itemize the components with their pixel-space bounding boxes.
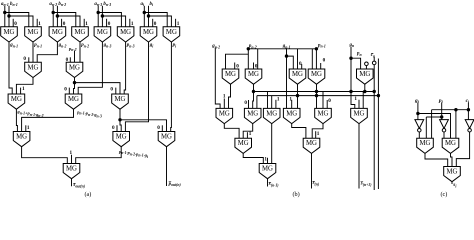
wire rail2 drop to B3 mid — [271, 96, 273, 109]
svg-text:MG: MG — [143, 29, 154, 36]
svg-text:0: 0 — [323, 58, 326, 64]
wire p_n-3 MG6 to MG13 — [124, 42, 125, 94]
majority gate U-A1 (b) — [222, 69, 239, 84]
svg-text:MG: MG — [359, 71, 370, 78]
svg-text:0: 0 — [23, 56, 26, 62]
constant 0 stub MG5 — [107, 19, 111, 27]
wire MG13 output down — [119, 109, 121, 120]
majority gate MG13 — [112, 94, 129, 109]
wire B5 output to C2 mid — [312, 124, 323, 139]
wire p_n-2 to A2 — [247, 48, 249, 70]
wire input an-1 to MG1 — [4, 6, 6, 27]
wire p_i to MG18 mid — [425, 117, 427, 138]
constant 1 stub gate B1 — [223, 94, 226, 109]
wire D1 output — [267, 179, 269, 187]
wire g_n-1 down — [286, 48, 288, 56]
node an-1 branch — [3, 11, 6, 14]
svg-text:pi: pi — [172, 43, 178, 48]
svg-text:s̅(n+1): s̅(n+1) — [360, 181, 372, 186]
majority gate MG3 — [49, 27, 66, 42]
wire c_i to MG19 right — [455, 110, 457, 139]
wire g_n-3 MG5 to MG12 — [78, 42, 102, 94]
node c_n on rail2 — [377, 94, 380, 97]
wire g_n to B6 left — [351, 58, 355, 108]
svg-text:s̅out(n): s̅out(n) — [72, 183, 85, 188]
svg-text:1: 1 — [354, 96, 357, 102]
svg-text:gn-1: gn-1 — [9, 43, 18, 48]
node A3 output on rail2 — [296, 94, 299, 97]
majority gate U-A2 (b) — [245, 69, 262, 84]
svg-text:1: 1 — [27, 125, 30, 131]
majority gate U-B3 (b) — [263, 108, 280, 123]
svg-text:MG: MG — [225, 71, 236, 78]
node A4 output on rail2 — [315, 94, 318, 97]
svg-text:MG: MG — [68, 96, 79, 103]
svg-text:gi: gi — [149, 43, 155, 48]
wire bn-2 to MG4 — [57, 16, 80, 27]
wire g_i down to inverter U1 — [417, 102, 419, 119]
wire an-1 to MG2 — [5, 13, 29, 27]
node MG13 output branch — [118, 118, 121, 121]
wire MG11 output to MG14 — [16, 109, 17, 131]
svg-text:MG: MG — [262, 166, 273, 173]
constant 1 stub gate B6 — [354, 96, 359, 108]
node MG10 output branch — [73, 81, 76, 84]
wire c_n into bubble — [373, 57, 375, 61]
svg-text:bi: bi — [150, 2, 155, 7]
majority gate MG19 (c) — [442, 138, 459, 153]
node an-3 branch — [97, 11, 100, 14]
node ai branch — [143, 11, 146, 14]
svg-text:MG: MG — [115, 96, 126, 103]
wire MG13 to MG16 mid — [120, 120, 167, 132]
wire MG19 output to MG20 mid — [451, 153, 453, 166]
majority gate U-B6 (b) — [351, 108, 368, 123]
wire rail1 drop to B5 mid — [322, 92, 324, 109]
majority gate MG20 (c) — [444, 167, 461, 182]
wire rail1 between rows A and B — [253, 91, 374, 93]
svg-text:1: 1 — [249, 131, 252, 137]
svg-text:MG: MG — [420, 140, 431, 147]
majority gate U-A3 (b) — [289, 69, 306, 84]
wire rail drop to A4 left — [311, 49, 313, 69]
majority gate MG6 — [117, 27, 134, 42]
svg-text:0: 0 — [154, 21, 157, 27]
majority gate MG11 — [8, 94, 25, 109]
wire B6 output s_n+1 — [358, 124, 360, 189]
constant 0 stub MG13 — [110, 87, 115, 94]
svg-text:MG: MG — [266, 110, 277, 117]
constant 1 stub gate D1 — [264, 157, 267, 164]
svg-text:MG: MG — [4, 29, 15, 36]
wire p_n-2 MG4 to MG10 right pin — [79, 42, 81, 62]
majority gate MG8 — [163, 27, 180, 42]
wire MG10 to MG12 mid — [74, 83, 75, 94]
node A4 output on rail1 — [315, 90, 318, 93]
svg-text:1: 1 — [223, 94, 226, 100]
node c_i branch — [467, 108, 470, 111]
svg-text:gn-2: gn-2 — [58, 43, 67, 48]
svg-text:pi: pi — [438, 98, 444, 104]
node g_n on rail1 — [349, 90, 352, 93]
inverter U3 (c) — [465, 120, 474, 132]
svg-text:0: 0 — [157, 125, 160, 131]
wire c_i down to inverter U3 — [467, 102, 469, 119]
constant 0 stub B-row gate A1 — [235, 63, 240, 70]
constant 0 stub gate B5 — [327, 98, 331, 109]
svg-text:MG: MG — [311, 71, 322, 78]
wire bn-3 to MG6 — [102, 16, 125, 27]
svg-text:s̅(n-1): s̅(n-1) — [268, 182, 279, 187]
node p_n-1 branch — [315, 47, 318, 50]
constant 1 stub MG14 — [26, 125, 30, 132]
svg-text:MG: MG — [238, 140, 249, 147]
svg-text:MG: MG — [52, 29, 63, 36]
wire c_n line down — [373, 65, 375, 190]
svg-text:gn-1+pn-1·gn-2: gn-1+pn-1·gn-2 — [17, 109, 44, 118]
constant 1 stub MG11 — [21, 86, 25, 94]
node bn-1 branch — [7, 14, 10, 17]
constant 0 stub MG9 — [23, 56, 28, 63]
wire MG10 output down — [74, 78, 76, 83]
wire input bn-1 to MG1 — [8, 6, 10, 27]
constant 0 stub MG12 — [64, 87, 69, 94]
svg-text:pn: pn — [356, 52, 362, 57]
wire rail1 drop to B6 right — [362, 92, 364, 109]
svg-text:0: 0 — [112, 125, 115, 131]
svg-text:bn-1: bn-1 — [10, 2, 18, 7]
wire A4 output through rail2 to B5 left — [316, 84, 318, 108]
wire p_n-1 MG2 to MG9 — [32, 42, 34, 62]
majority gate MG9 — [25, 62, 42, 77]
svg-text:MG: MG — [286, 110, 297, 117]
svg-text:0: 0 — [108, 21, 111, 27]
wire g_i to MG19 mid — [418, 114, 451, 139]
wire ai to MG8 — [144, 13, 167, 27]
wire inverter U1 to MG18 left — [418, 132, 420, 138]
svg-text:pn-1·pn-2·gn-3: pn-1·pn-2·gn-3 — [76, 109, 102, 118]
svg-text:1: 1 — [317, 131, 320, 137]
wire rail2 drop to B2 right — [256, 96, 258, 109]
wire p_i bus — [426, 116, 441, 118]
constant 0 stub MG15 — [112, 125, 117, 132]
wire A3 output through rail2 to B4 right — [297, 84, 299, 108]
majority gate MG4 — [72, 27, 89, 42]
node g_n-1 branch — [285, 54, 288, 57]
majority gate MG15 — [113, 132, 130, 147]
constant 0 stub MG3 — [62, 19, 66, 27]
wire MG20 output s_i — [451, 182, 453, 184]
wire p_n-2 branch to MG10 mid pin — [74, 51, 76, 63]
wire p_i down to inverter U2 — [441, 102, 443, 119]
majority gate MG17 — [63, 164, 80, 179]
wire g_i MG7 to MG15 — [125, 42, 148, 132]
wire an-3 to MG6 — [98, 13, 121, 27]
wire A5 output to rail1 — [364, 84, 366, 91]
majority gate U-B2 (b) — [244, 108, 261, 123]
svg-text:1: 1 — [277, 97, 280, 103]
wire B3 output to D1 right — [271, 124, 273, 164]
constant 0 stub gate A2 — [254, 63, 258, 70]
wire g_n down — [350, 47, 352, 58]
constant 1 stub gate C2 — [316, 131, 320, 138]
wire g_n-2 to B1 — [215, 48, 220, 109]
constant 0 stub MG7 — [153, 19, 157, 27]
svg-text:0: 0 — [299, 61, 302, 67]
svg-text:MG: MG — [219, 110, 230, 117]
node an-2 branch — [52, 11, 55, 14]
svg-text:MG: MG — [116, 134, 127, 141]
node bi branch — [147, 14, 150, 17]
svg-text:MG: MG — [318, 110, 329, 117]
node rail1 right end on c_n line — [373, 90, 376, 93]
svg-text:bn-3: bn-3 — [103, 2, 111, 7]
wire g_n-1 MG1 to MG11 — [9, 42, 12, 94]
wire MG14 output to MG17 — [22, 147, 68, 164]
svg-text:gi: gi — [414, 98, 420, 104]
svg-text:pn-2: pn-2 — [68, 46, 77, 52]
node A5 output on rail1 — [363, 90, 366, 93]
majority gate MG18 (c) — [417, 138, 434, 153]
majority gate U-C1 (b) — [235, 138, 252, 153]
wire rail1 drop to B3 left — [267, 92, 269, 109]
svg-text:si: si — [452, 182, 457, 188]
svg-text:bn-2: bn-2 — [58, 2, 66, 7]
wire inverter U3 to MG20 right — [456, 132, 469, 167]
svg-text:pn-2: pn-2 — [80, 43, 89, 48]
svg-text:MG: MG — [28, 29, 39, 36]
majority gate U-B1 (b) — [216, 108, 233, 123]
svg-text:1: 1 — [85, 21, 88, 27]
wire B1 output to C1 — [224, 124, 239, 139]
constant 1 stub gate C1 — [247, 131, 251, 138]
svg-text:MG: MG — [248, 71, 259, 78]
node p_n-2 top branch — [247, 47, 250, 50]
svg-text:1: 1 — [131, 21, 134, 27]
majority gate MG16 — [158, 132, 175, 147]
constant 0 stub gate A4 — [321, 58, 326, 70]
constant 0 stub gate B2 — [244, 100, 248, 108]
wire input bn-3 to MG5 — [101, 6, 103, 27]
constant 1 stub MG6 — [130, 19, 134, 27]
wire p_i MG8 to MG16 — [170, 42, 173, 132]
inverter bubble on c_n line — [372, 61, 376, 65]
majority gate MG5 — [94, 27, 111, 42]
svg-text:1: 1 — [289, 96, 292, 102]
svg-text:MG: MG — [166, 29, 177, 36]
majority gate U-A4 (b) — [308, 69, 325, 84]
svg-text:MG: MG — [66, 166, 77, 173]
wire rail drop to A2 right — [257, 49, 259, 69]
wire input bi to MG7 — [148, 6, 150, 27]
svg-text:pn-1·pn-2·pn-1·gi: pn-1·pn-2·pn-1·gi — [118, 149, 149, 159]
wire MG16 output p_out — [166, 147, 168, 186]
inverter U1 (c) — [415, 120, 424, 132]
wire rail drop to A3 mid — [297, 49, 299, 69]
wire g_n-2 MG3 to MG9 — [37, 42, 57, 62]
node bn-3 branch — [101, 14, 104, 17]
wire rail2 between rows A and B — [257, 95, 379, 97]
node p_i branch — [440, 115, 443, 118]
wire g_n-1 to A3 left — [287, 56, 294, 69]
node g_n branch — [349, 57, 352, 60]
wire A1 output to B1 — [229, 84, 231, 108]
wire B2 output to C1 mid — [243, 124, 253, 139]
majority gate MG7 — [140, 27, 157, 42]
svg-text:0: 0 — [14, 21, 17, 27]
svg-text:1: 1 — [38, 21, 41, 27]
inverted input bubble A5 mid — [365, 62, 369, 66]
majority gate MG1 — [1, 27, 18, 42]
inverter U2 (c) — [440, 120, 449, 132]
wire p_n-1 to A4 — [315, 48, 317, 70]
wire c_i to MG18 right — [431, 110, 433, 139]
svg-text:pn-1: pn-1 — [317, 43, 326, 48]
wire bn-1 to MG2 — [9, 16, 33, 27]
svg-text:MG: MG — [445, 140, 456, 147]
svg-text:(a): (a) — [85, 191, 92, 198]
constant 1 stub gate B3 — [276, 97, 280, 109]
svg-text:1: 1 — [22, 86, 25, 92]
wire B4 output to C2 — [292, 124, 306, 139]
node c_i bus tap — [454, 108, 457, 111]
svg-text:(b): (b) — [293, 191, 300, 198]
svg-text:MG: MG — [247, 110, 258, 117]
majority gate MG14 — [13, 132, 30, 147]
svg-text:p̅out(n): p̅out(n) — [168, 182, 182, 187]
wire bi to MG8 — [149, 16, 172, 27]
wire A2 output to B2 — [252, 84, 255, 108]
constant 1 stub MG2 — [37, 19, 41, 27]
svg-text:s̅(n): s̅(n) — [312, 181, 320, 186]
majority gate U-D1 (b) — [259, 164, 276, 179]
majority gate U-B4 (b) — [283, 108, 300, 123]
constant 0 stub gate A3 — [299, 61, 302, 69]
wire C1 output to D1 — [243, 153, 263, 163]
wire input an-3 to MG5 — [97, 6, 99, 27]
wire input bn-2 to MG3 — [56, 6, 58, 27]
majority gate U-C2 (b) — [303, 138, 320, 153]
svg-text:0: 0 — [244, 100, 247, 106]
svg-text:0: 0 — [328, 98, 331, 104]
svg-text:MG: MG — [11, 96, 22, 103]
wire MG9 output to MG11 — [16, 78, 33, 95]
wire an-2 to MG4 — [53, 13, 76, 27]
svg-text:MG: MG — [69, 64, 80, 71]
svg-text:MG: MG — [306, 140, 317, 147]
wire input an-2 to MG3 — [52, 6, 54, 27]
svg-text:MG: MG — [161, 134, 172, 141]
majority gate MG12 — [65, 94, 82, 109]
svg-text:0: 0 — [64, 87, 67, 93]
wire auxiliary right rail down — [377, 59, 379, 190]
wire rail c_i bus — [432, 109, 469, 111]
majority gate MG2 — [25, 27, 42, 42]
node A2 output on rail1 — [252, 90, 255, 93]
constant 1 stub MG4 — [84, 19, 88, 27]
wire p_n-2 to A1 — [226, 54, 249, 69]
svg-text:MG: MG — [292, 71, 303, 78]
majority gate MG10 — [66, 62, 83, 77]
wire rail p bus — [248, 48, 316, 50]
majority gate U-A5 (b) — [357, 69, 374, 84]
svg-text:pn-1: pn-1 — [33, 43, 42, 48]
svg-text:(c): (c) — [441, 191, 448, 198]
wire C2 output s_n — [311, 153, 313, 188]
svg-text:MG: MG — [120, 29, 131, 36]
wire g_n-1 to B4 left — [286, 56, 288, 108]
wire MG13 to MG15 mid — [120, 120, 121, 132]
constant 1 stub MG17 — [70, 150, 73, 164]
wire MG15 output to MG17 — [76, 147, 122, 164]
wire MG17 output s_out — [71, 179, 73, 187]
wire MG10 to MG13 mid — [75, 83, 121, 94]
wire MG12 output to MG14 — [22, 109, 74, 131]
constant 1 stub MG8 — [176, 19, 180, 27]
svg-text:gn-3: gn-3 — [103, 43, 112, 48]
node bn-2 branch — [56, 14, 59, 17]
svg-text:1: 1 — [70, 150, 73, 156]
svg-text:ci: ci — [466, 98, 470, 104]
svg-text:MG: MG — [354, 110, 365, 117]
svg-text:pn-3: pn-3 — [126, 43, 135, 48]
svg-text:MG: MG — [97, 29, 108, 36]
wire MG18 output to MG20 left — [425, 153, 448, 166]
constant 0 stub MG1 — [13, 19, 17, 27]
wire bubble to A5 mid — [365, 66, 367, 69]
svg-text:MG: MG — [75, 29, 86, 36]
svg-text:1: 1 — [264, 157, 267, 163]
svg-text:MG: MG — [447, 169, 458, 176]
constant 1 stub gate B4 — [289, 96, 292, 108]
wire inverter U2 to MG19 left — [443, 132, 445, 138]
constant 0 stub MG16 — [157, 125, 162, 132]
svg-text:MG: MG — [28, 64, 39, 71]
wire g_n to A5 left — [351, 58, 361, 69]
svg-text:0: 0 — [110, 87, 113, 93]
wire input ai to MG7 — [143, 6, 145, 27]
node g_i branch — [416, 112, 419, 115]
svg-text:1: 1 — [177, 21, 180, 27]
svg-text:MG: MG — [16, 134, 27, 141]
svg-text:0: 0 — [63, 21, 66, 27]
constant 0 stub MG10 — [66, 57, 71, 63]
majority gate U-B5 (b) — [315, 108, 332, 123]
